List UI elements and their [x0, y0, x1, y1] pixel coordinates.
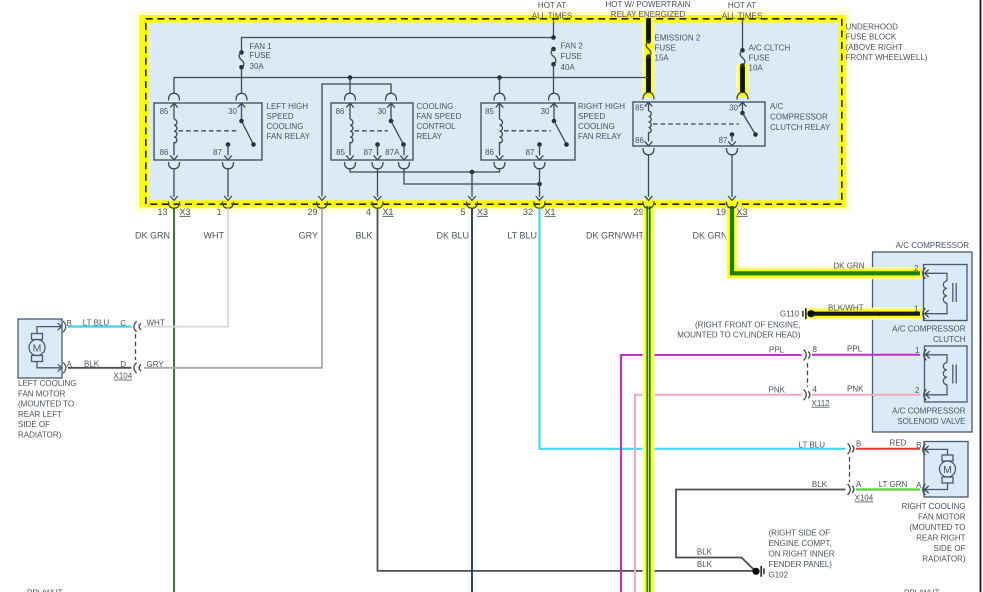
- svg-text:FUSE: FUSE: [561, 52, 582, 61]
- svg-text:MOUNTED TO CYLINDER HEAD): MOUNTED TO CYLINDER HEAD): [677, 331, 801, 340]
- svg-text:X1: X1: [383, 207, 394, 217]
- svg-text:WHT: WHT: [147, 319, 165, 328]
- svg-text:2: 2: [915, 386, 920, 395]
- svg-text:UNDERHOOD: UNDERHOOD: [846, 22, 899, 31]
- fuse block exit 29 (GRY): [317, 196, 328, 208]
- svg-text:CLUTCH: CLUTCH: [933, 335, 966, 344]
- fuse EMISSION 2 15A: [646, 39, 651, 59]
- svg-text:(MOUNTED TO: (MOUNTED TO: [909, 523, 965, 532]
- A/C compressor clutch coil box: [924, 265, 968, 321]
- pin 86 of K4 (bottom): [643, 132, 654, 155]
- svg-text:DK GRN/WHT: DK GRN/WHT: [586, 231, 644, 241]
- svg-text:1: 1: [216, 207, 221, 217]
- svg-text:RADIATOR): RADIATOR): [922, 554, 966, 563]
- svg-text:DK BLU: DK BLU: [436, 231, 469, 241]
- relay K4 A/C COMPRESSOR CLUTCH RELAY: [633, 102, 765, 146]
- wire BLK from ground run to X104 A: [676, 490, 846, 572]
- motor M1 top brush: [32, 334, 43, 340]
- svg-text:BLK: BLK: [812, 480, 828, 489]
- wire: GRY branch bus to relay 2 pin 30: [322, 84, 391, 197]
- pin 85 of K3 (top, coil): [494, 93, 505, 119]
- motor M2 armature circle: [940, 461, 956, 477]
- svg-text:LEFT COOLING: LEFT COOLING: [18, 379, 77, 388]
- dashed actuator link of K2: [355, 130, 389, 132]
- connector X104 terminal D: [134, 363, 141, 373]
- pin 87 of K2 (bottom): [372, 142, 383, 169]
- svg-text:FUSE: FUSE: [655, 44, 676, 53]
- svg-text:LT BLU: LT BLU: [83, 318, 110, 327]
- node: bus junction above relay 3 pin 85: [497, 75, 502, 80]
- connector X104 terminal B (right): [848, 443, 854, 454]
- relay K2 COOLING FAN SPEED CONTROL RELAY: [331, 103, 413, 160]
- pin 30 of K2 (top, switch): [386, 93, 397, 119]
- pin 1 of solenoid valve: [924, 349, 930, 360]
- wire PPL from PCM riser to connector X112 pin 8: [621, 355, 802, 592]
- coil of K4: [649, 111, 652, 133]
- svg-text:G110: G110: [780, 310, 800, 319]
- svg-text:86: 86: [635, 136, 644, 145]
- svg-text:10A: 10A: [749, 64, 764, 73]
- svg-text:COOLING: COOLING: [578, 122, 615, 131]
- highlighted wire DK GRN/WHT from fuse block exit 29 to bottom of page: [643, 199, 655, 592]
- svg-text:PPL: PPL: [769, 345, 785, 354]
- svg-text:BLK: BLK: [697, 547, 713, 556]
- svg-text:C: C: [120, 319, 126, 328]
- svg-text:X112: X112: [812, 399, 831, 408]
- svg-text:19: 19: [716, 207, 726, 217]
- pin 2 of clutch: [923, 268, 929, 279]
- right cooling fan motor M2: [924, 442, 968, 498]
- svg-text:SIDE OF: SIDE OF: [933, 544, 965, 553]
- node: junction at FAN 2 fuse top: [551, 35, 556, 40]
- svg-text:30: 30: [541, 107, 550, 116]
- svg-text:A/C COMPRESSOR: A/C COMPRESSOR: [892, 407, 966, 416]
- pin 87 of K4 (bottom): [727, 132, 738, 155]
- dashed actuator link of K1: [179, 130, 239, 132]
- svg-text:85: 85: [485, 107, 494, 116]
- motor M1 armature circle: [29, 340, 45, 356]
- svg-text:FENDER PANEL): FENDER PANEL): [769, 560, 833, 569]
- svg-text:86: 86: [336, 107, 345, 116]
- coil of K1: [174, 119, 177, 143]
- svg-text:B: B: [856, 439, 861, 448]
- motor M2 bottom brush: [942, 477, 953, 483]
- left cooling fan motor M1: [18, 319, 62, 378]
- svg-text:G102: G102: [769, 571, 789, 580]
- solenoid coil winding: [927, 355, 957, 395]
- svg-text:87: 87: [364, 148, 373, 157]
- motor M1 internal wiring: [37, 327, 61, 334]
- svg-text:PPL: PPL: [847, 344, 863, 353]
- wire: A/C CLTCH fuse riser from border: [742, 20, 744, 51]
- wire DK BLU vertical to bottom of page: [471, 208, 473, 592]
- fuse block exit 29 arc redrawn over glow: [643, 196, 654, 208]
- motor M1 bottom brush: [32, 356, 43, 362]
- svg-text:HOT AT: HOT AT: [728, 1, 756, 10]
- highlighted feed wire below A/C CLTCH fuse (yellow glow): [737, 64, 749, 97]
- svg-text:DK GRN: DK GRN: [833, 262, 864, 271]
- fuse block exit 13 X3: [169, 196, 180, 208]
- pin 85 of K2 (bottom): [345, 142, 356, 169]
- A/C COMPRESSOR assembly box: [873, 252, 973, 432]
- wire K4 pin 87 to exit 19: [731, 155, 733, 197]
- svg-text:PPL/WHT: PPL/WHT: [904, 589, 940, 592]
- svg-text:SIDE OF: SIDE OF: [18, 420, 50, 429]
- svg-text:A/C: A/C: [770, 102, 784, 111]
- wire PPL from X112 to solenoid pin 1: [812, 354, 920, 356]
- underhood fuse block box (yellow highlighted, blue fill): [137, 13, 848, 210]
- svg-text:EMISSION 2: EMISSION 2: [655, 33, 701, 42]
- svg-text:FAN MOTOR: FAN MOTOR: [18, 389, 66, 398]
- pin B of M2: [923, 444, 929, 455]
- svg-text:BLK: BLK: [355, 231, 372, 241]
- wire DK GRN vertical to bottom of page: [173, 208, 175, 592]
- svg-text:FAN 1: FAN 1: [250, 42, 273, 51]
- coil of K3: [500, 119, 503, 143]
- svg-text:85: 85: [160, 107, 169, 116]
- svg-text:DK GRN: DK GRN: [692, 231, 727, 241]
- pin 86 of K3 (bottom): [494, 142, 505, 169]
- connector X112 terminal 4: [804, 389, 810, 400]
- svg-text:PNK: PNK: [847, 384, 864, 393]
- svg-text:M: M: [33, 343, 42, 355]
- node: bus junction above relay 2 pin 86: [348, 75, 353, 80]
- svg-text:1: 1: [915, 346, 920, 355]
- svg-text:REAR LEFT: REAR LEFT: [18, 410, 62, 419]
- svg-text:(RIGHT FRONT OF ENGINE,: (RIGHT FRONT OF ENGINE,: [695, 320, 800, 329]
- svg-text:87: 87: [213, 148, 222, 157]
- svg-text:15A: 15A: [655, 54, 670, 63]
- wire: riser to relay 2 pin 86: [349, 78, 351, 94]
- wire RED from X104 B to M2 pin B: [856, 448, 920, 450]
- svg-text:8: 8: [813, 345, 818, 354]
- svg-text:A/C CLTCH: A/C CLTCH: [749, 43, 791, 52]
- svg-text:85: 85: [635, 104, 644, 113]
- pin 85 of K4 (top, coil): [643, 92, 654, 111]
- pin 85 of K1 (top, coil): [169, 93, 180, 119]
- svg-text:BLK/WHT: BLK/WHT: [828, 304, 864, 313]
- svg-text:RADIATOR): RADIATOR): [18, 431, 62, 440]
- pin 87 of K1 (bottom): [223, 142, 234, 169]
- svg-text:WHT: WHT: [204, 231, 225, 241]
- ground G102: [752, 566, 764, 577]
- svg-text:32: 32: [523, 207, 533, 217]
- svg-text:30A: 30A: [250, 62, 265, 71]
- connector X104 terminal A (right): [848, 484, 854, 495]
- wire PNK from X112 to solenoid pin 2: [812, 394, 920, 396]
- svg-text:X1: X1: [545, 207, 556, 217]
- svg-text:(ABOVE RIGHT: (ABOVE RIGHT: [846, 43, 903, 52]
- fuse FAN 2 40A: [551, 47, 556, 67]
- svg-text:SOLENOID VALVE: SOLENOID VALVE: [897, 417, 965, 426]
- svg-text:LT BLU: LT BLU: [799, 440, 826, 449]
- highlighted wire BLK/WHT from ground G110 to A/C compressor clutch pin 1: [806, 308, 922, 320]
- svg-text:A/C COMPRESSOR: A/C COMPRESSOR: [892, 325, 966, 334]
- svg-text:SPEED: SPEED: [578, 112, 605, 121]
- svg-text:HOT AT: HOT AT: [538, 1, 566, 10]
- page right border line: [980, 0, 982, 592]
- fuse FAN 1 30A: [239, 50, 244, 69]
- fuse block exit 4 X1: [372, 196, 383, 208]
- wire: HOT AT ALL TIMES riser to FAN fuses: [553, 20, 555, 38]
- svg-text:FUSE BLOCK: FUSE BLOCK: [846, 33, 897, 42]
- highlighted wire DK GRN from fuse block exit 19 to A/C compressor clutch pin 2: [732, 199, 922, 273]
- svg-text:BLK: BLK: [84, 360, 100, 369]
- pin B of M1: [58, 321, 66, 332]
- svg-text:FAN RELAY: FAN RELAY: [578, 132, 622, 141]
- svg-text:A: A: [856, 480, 862, 489]
- svg-text:COOLING: COOLING: [267, 122, 304, 131]
- wire: FAN 2 fuse to relay 3 pin 30: [553, 64, 555, 93]
- svg-text:RIGHT COOLING: RIGHT COOLING: [902, 502, 966, 511]
- svg-text:29: 29: [633, 207, 643, 217]
- fuse block exit 1: [223, 196, 234, 208]
- svg-text:D: D: [120, 360, 126, 369]
- svg-text:87: 87: [719, 136, 728, 145]
- wire K4 pin 86 to exit 29: [648, 155, 650, 197]
- switch blade of K4: [740, 111, 758, 137]
- svg-text:COOLING: COOLING: [417, 102, 454, 111]
- dashed actuator link of K3: [504, 130, 551, 132]
- svg-text:4: 4: [813, 385, 818, 394]
- wire: riser to relay 3 pin 85: [499, 78, 501, 94]
- svg-text:COMPRESSOR: COMPRESSOR: [770, 113, 828, 122]
- svg-text:X3: X3: [180, 207, 191, 217]
- wire GRY from exit 29 to connector X104 D: [144, 208, 322, 368]
- pin A of M2: [923, 484, 929, 495]
- svg-text:PNK: PNK: [769, 385, 786, 394]
- svg-text:X3: X3: [737, 207, 748, 217]
- pin A of M1: [58, 362, 66, 373]
- svg-text:85: 85: [336, 148, 345, 157]
- svg-text:LT GRN: LT GRN: [879, 480, 908, 489]
- svg-text:REAR RIGHT: REAR RIGHT: [916, 533, 965, 542]
- ground G110: [802, 308, 814, 319]
- svg-text:RED: RED: [890, 438, 907, 447]
- svg-text:5: 5: [460, 207, 465, 217]
- svg-text:30: 30: [729, 104, 738, 113]
- connector X112 terminal 8: [804, 350, 810, 361]
- wire LT BLU from exit 32 to connector X104 B: [540, 208, 846, 449]
- svg-text:ENGINE COMPT,: ENGINE COMPT,: [769, 539, 832, 548]
- motor M2 internal wiring: [926, 449, 948, 455]
- pin 86 of K1 (bottom): [169, 142, 180, 169]
- wire WHT from exit 1 to connector X104 C: [144, 208, 228, 326]
- svg-text:ALL TIMES: ALL TIMES: [722, 11, 762, 20]
- svg-text:PPL/WHT: PPL/WHT: [27, 588, 63, 592]
- pin 87 of K3 (bottom): [534, 142, 545, 169]
- svg-text:1: 1: [914, 305, 919, 314]
- svg-text:4: 4: [366, 207, 371, 217]
- connector X104 body (dashed): [135, 334, 137, 360]
- svg-text:LT BLU: LT BLU: [507, 231, 537, 241]
- switch blade of K3: [552, 119, 569, 147]
- svg-text:A/C COMPRESSOR: A/C COMPRESSOR: [896, 241, 970, 250]
- wire junction down to exit 5: [471, 172, 473, 197]
- svg-text:DK GRN: DK GRN: [135, 231, 170, 241]
- connector X104 terminal C: [134, 321, 141, 331]
- svg-text:86: 86: [485, 148, 494, 157]
- fuse block exit 32 X1: [534, 196, 545, 208]
- wire K2 pin 87 to exit 4: [377, 169, 379, 197]
- fuse A/C CLTCH 10A: [740, 48, 745, 68]
- svg-text:(MOUNTED TO: (MOUNTED TO: [18, 400, 74, 409]
- svg-text:FRONT WHEELWELL): FRONT WHEELWELL): [846, 53, 928, 62]
- wire LT BLU from M1 pin B to connector X104 C: [68, 325, 132, 327]
- pin 2 of solenoid valve: [924, 389, 930, 400]
- A/C compressor solenoid valve coil box: [925, 346, 968, 402]
- pin 86 of K2 (top, coil): [345, 93, 356, 119]
- svg-text:FAN SPEED: FAN SPEED: [417, 112, 462, 121]
- svg-text:FUSE: FUSE: [749, 54, 770, 63]
- wire K1 pin 87 to exit 1: [227, 169, 229, 197]
- svg-text:FAN RELAY: FAN RELAY: [267, 132, 311, 141]
- svg-text:RELAY: RELAY: [417, 132, 443, 141]
- coil of K2: [350, 119, 353, 143]
- clutch coil winding: [926, 273, 957, 313]
- connector X104 body (dashed, right): [849, 457, 851, 482]
- wire K2 pin 87A across to K3 pin 87 wire: [404, 169, 540, 184]
- svg-text:30: 30: [378, 107, 387, 116]
- fuse block exit 5 X3: [467, 196, 478, 208]
- svg-text:FAN 2: FAN 2: [561, 41, 584, 50]
- wire K1 pin 86 to exit 13: [173, 169, 175, 197]
- svg-text:SPEED: SPEED: [267, 112, 294, 121]
- svg-text:X104: X104: [855, 494, 874, 503]
- pin 30 of K3 (top, switch): [549, 93, 560, 119]
- svg-text:GRY: GRY: [299, 231, 318, 241]
- svg-text:(RIGHT SIDE OF: (RIGHT SIDE OF: [769, 529, 831, 538]
- pin 30 of K1 (top, switch): [236, 93, 247, 119]
- svg-text:GRY: GRY: [147, 360, 165, 369]
- svg-text:RIGHT HIGH: RIGHT HIGH: [578, 102, 625, 111]
- wire BLK from M1 pin A to connector X104 D: [68, 367, 132, 369]
- svg-text:87A: 87A: [385, 148, 400, 157]
- svg-text:ON RIGHT INNER: ON RIGHT INNER: [769, 550, 835, 559]
- wire PNK from riser to connector X112 pin 4: [635, 395, 802, 592]
- wire LT GRN from X104 A to M2 pin A: [856, 488, 920, 490]
- svg-text:CONTROL: CONTROL: [417, 122, 457, 131]
- svg-text:87: 87: [526, 148, 535, 157]
- relay K1 LEFT HIGH SPEED COOLING FAN RELAY: [154, 103, 262, 160]
- relay K3 RIGHT HIGH SPEED COOLING FAN RELAY: [481, 103, 575, 160]
- pin 1 of clutch: [923, 308, 929, 319]
- node junction on K3 pin 87 wire: [537, 182, 542, 187]
- highlighted feed wire through EMISSION 2 fuse (yellow glow): [643, 17, 655, 97]
- svg-text:CLUTCH RELAY: CLUTCH RELAY: [770, 123, 831, 132]
- switch blade of K2: [389, 119, 406, 147]
- svg-text:X3: X3: [477, 207, 488, 217]
- svg-text:LEFT HIGH: LEFT HIGH: [267, 102, 309, 111]
- svg-text:HOT W/ POWERTRAIN: HOT W/ POWERTRAIN: [605, 0, 690, 9]
- motor M2 top brush: [942, 455, 953, 461]
- svg-text:FUSE: FUSE: [250, 51, 271, 60]
- wire K3 pin 87 to exit 32: [539, 169, 541, 197]
- switch blade of K1: [239, 119, 256, 147]
- wire: coil supply bus from EMISSION 2 fuse: [174, 78, 649, 94]
- node junction to exit 5: [470, 170, 475, 175]
- svg-text:30: 30: [228, 107, 237, 116]
- svg-text:M: M: [943, 464, 952, 476]
- svg-text:13: 13: [157, 207, 167, 217]
- connector X112 body (dashed): [807, 363, 809, 387]
- svg-text:X104: X104: [114, 372, 133, 381]
- wire: FAN 1 fuse to relay 1 pin 30: [241, 67, 243, 93]
- wire K2 pin 85 to K3 pin 86 joint bus: [350, 169, 500, 172]
- svg-text:40A: 40A: [561, 63, 576, 72]
- pin 30 of K4 (top, switch): [737, 92, 748, 111]
- svg-text:86: 86: [160, 148, 169, 157]
- svg-text:FAN MOTOR: FAN MOTOR: [918, 512, 966, 521]
- wire BLK from exit 4 to ground G102: [378, 208, 754, 571]
- svg-text:2: 2: [914, 264, 919, 273]
- svg-text:ALL TIMES: ALL TIMES: [532, 11, 572, 20]
- dashed actuator link of K4: [653, 123, 739, 125]
- wire: feeder from junction to FAN 1 fuse: [242, 38, 554, 53]
- svg-text:29: 29: [307, 207, 317, 217]
- fuse block exit 19 X3: [727, 196, 738, 208]
- fuse block exit 29 (DK GRN/WHT): [643, 196, 654, 208]
- pin 87A of K2 (bottom): [399, 145, 410, 169]
- svg-text:BLK: BLK: [697, 560, 713, 569]
